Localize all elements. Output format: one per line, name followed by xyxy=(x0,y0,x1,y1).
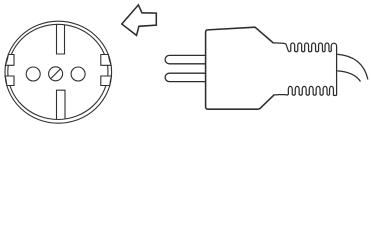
center screw circle xyxy=(49,67,63,81)
cable upper curve xyxy=(337,54,368,79)
earth tab right lower xyxy=(101,76,112,86)
earth tab left lower xyxy=(5,76,14,86)
socket top slot xyxy=(57,25,65,55)
arrow pointing left xyxy=(122,5,157,36)
socket bottom slot xyxy=(57,90,66,119)
earth tab right upper xyxy=(101,55,111,66)
socket inner circle xyxy=(8,24,108,119)
plug prong lower xyxy=(165,73,206,81)
earth tab left upper xyxy=(5,55,14,66)
pin hole right xyxy=(71,67,85,81)
pin hole left xyxy=(26,67,40,81)
cable lower curve xyxy=(337,71,360,82)
plug prong upper xyxy=(165,55,206,63)
screw slash xyxy=(51,69,61,79)
plug body: face, top edge, slopes, bottom edge xyxy=(206,27,275,109)
ribbed strain relief waves and end cap xyxy=(274,43,337,96)
socket outer circle xyxy=(5,21,112,123)
